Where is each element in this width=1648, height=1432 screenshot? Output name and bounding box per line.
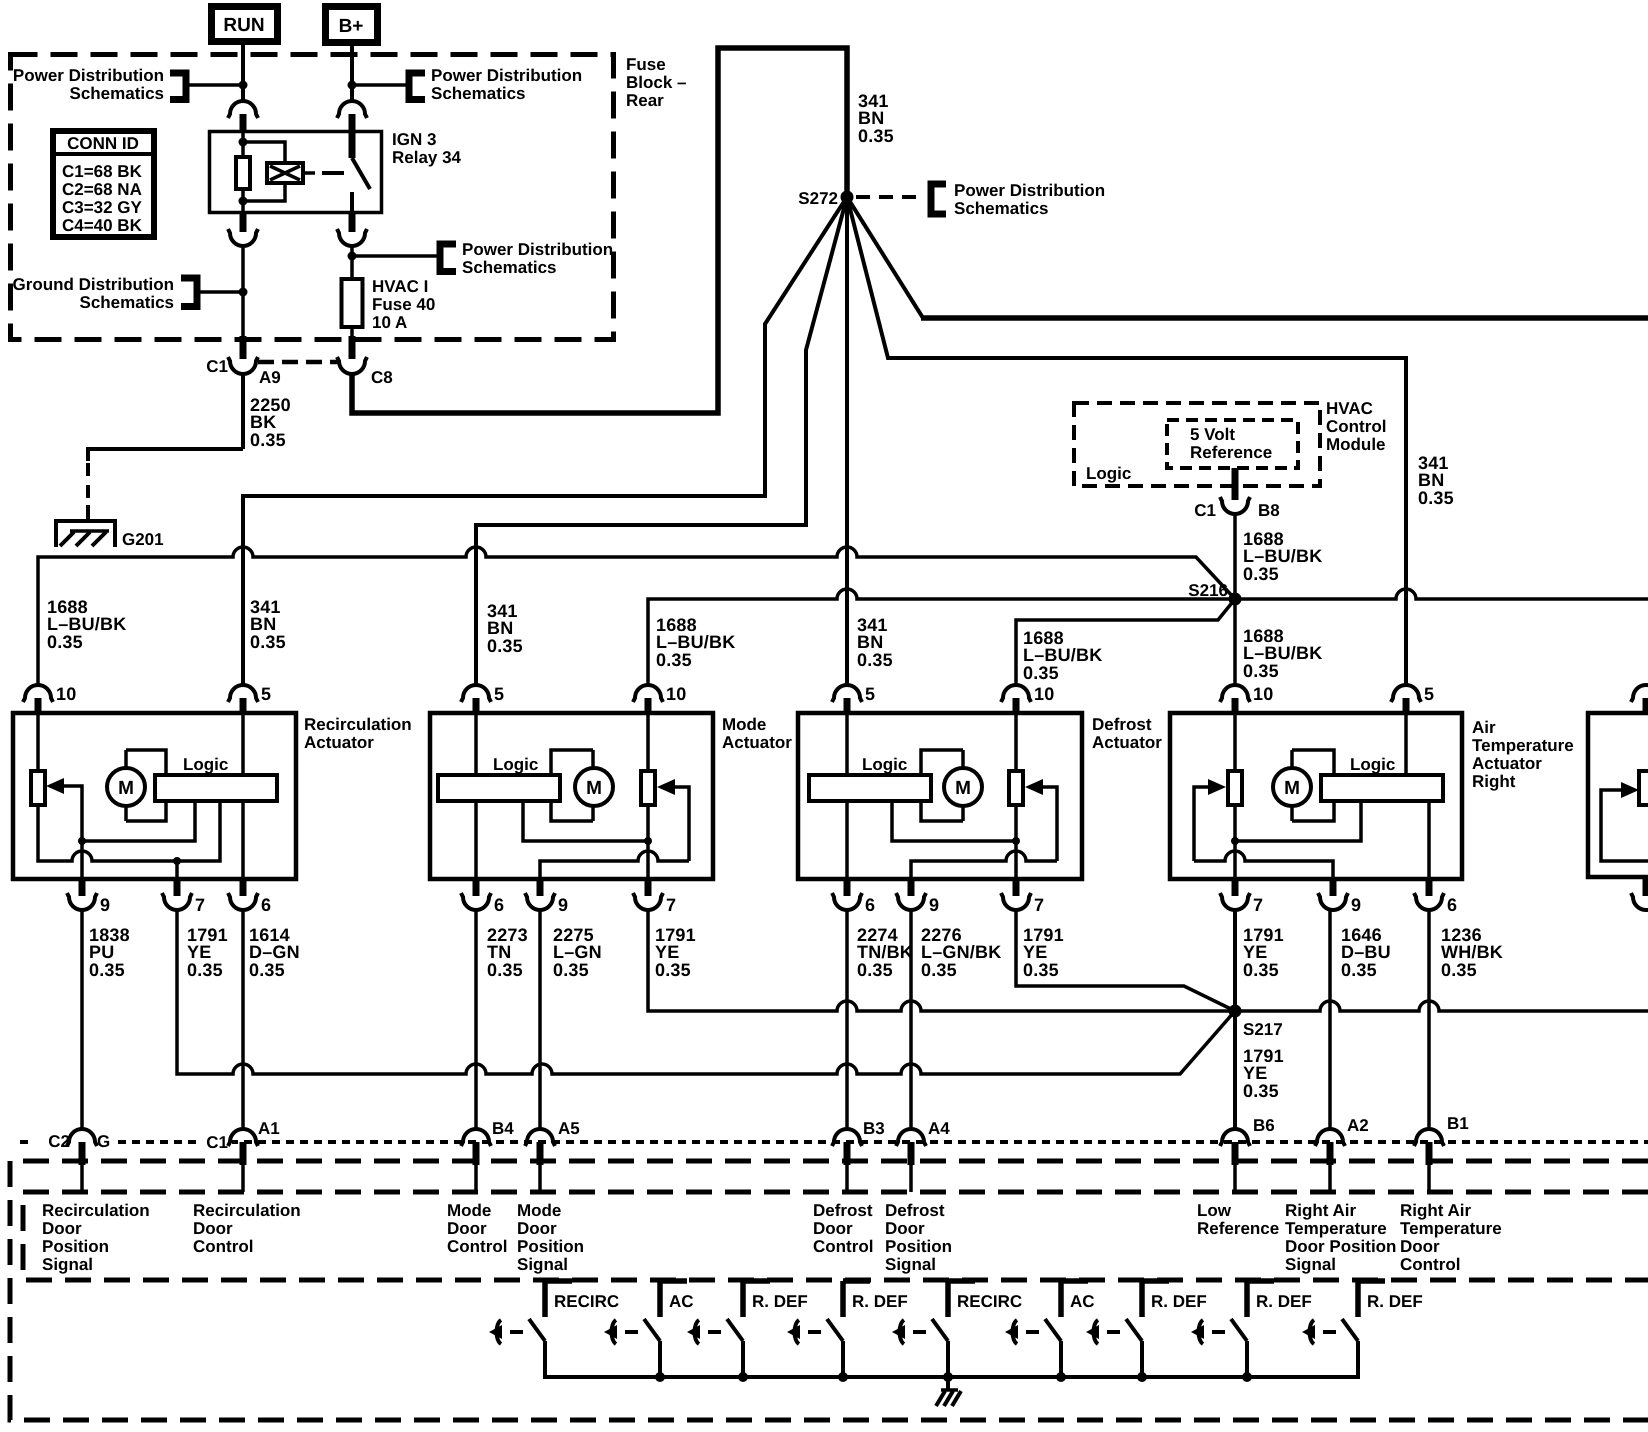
svg-text:Power Distribution: Power Distribution xyxy=(431,66,582,85)
svg-text:L–BU/BK: L–BU/BK xyxy=(47,614,126,634)
svg-text:0.35: 0.35 xyxy=(89,960,125,980)
svg-text:Logic: Logic xyxy=(862,755,907,774)
svg-text:0.35: 0.35 xyxy=(47,632,83,652)
svg-text:M: M xyxy=(586,778,602,799)
svg-text:RUN: RUN xyxy=(223,15,264,36)
svg-text:CONN ID: CONN ID xyxy=(67,134,139,153)
svg-text:C1: C1 xyxy=(1194,501,1216,520)
svg-text:BN: BN xyxy=(1418,470,1444,490)
svg-text:WH/BK: WH/BK xyxy=(1441,942,1503,962)
svg-text:C2: C2 xyxy=(48,1132,70,1151)
svg-text:0.35: 0.35 xyxy=(1441,960,1477,980)
svg-text:L–BU/BK: L–BU/BK xyxy=(1243,546,1322,566)
svg-text:6: 6 xyxy=(865,895,875,915)
svg-text:0.35: 0.35 xyxy=(655,960,691,980)
svg-text:Door: Door xyxy=(42,1219,82,1238)
svg-text:6: 6 xyxy=(261,895,271,915)
svg-text:Signal: Signal xyxy=(1285,1255,1336,1274)
svg-text:BN: BN xyxy=(250,614,276,634)
svg-text:S217: S217 xyxy=(1243,1020,1283,1039)
svg-text:B+: B+ xyxy=(339,16,364,37)
svg-text:D–BU: D–BU xyxy=(1341,942,1391,962)
svg-text:Recirculation: Recirculation xyxy=(42,1201,150,1220)
svg-text:AC: AC xyxy=(1070,1292,1095,1311)
svg-text:Actuator: Actuator xyxy=(1092,733,1162,752)
svg-text:5: 5 xyxy=(865,684,875,704)
svg-text:Ground Distribution: Ground Distribution xyxy=(13,275,174,294)
svg-text:Schematics: Schematics xyxy=(70,84,165,103)
svg-text:Door: Door xyxy=(517,1219,557,1238)
svg-text:0.35: 0.35 xyxy=(1243,564,1279,584)
svg-text:7: 7 xyxy=(1253,895,1263,915)
svg-text:YE: YE xyxy=(1023,942,1047,962)
svg-text:R. DEF: R. DEF xyxy=(1151,1292,1207,1311)
svg-text:Defrost: Defrost xyxy=(885,1201,945,1220)
svg-text:Schematics: Schematics xyxy=(80,293,175,312)
svg-text:10: 10 xyxy=(1034,684,1054,704)
svg-text:Control: Control xyxy=(1326,417,1386,436)
svg-text:R. DEF: R. DEF xyxy=(852,1292,908,1311)
svg-text:0.35: 0.35 xyxy=(487,960,523,980)
svg-text:C1=68 BK: C1=68 BK xyxy=(62,162,143,181)
svg-text:L–GN: L–GN xyxy=(553,942,602,962)
svg-text:Temperature: Temperature xyxy=(1400,1219,1502,1238)
svg-text:10 A: 10 A xyxy=(372,313,407,332)
svg-text:B6: B6 xyxy=(1253,1116,1275,1135)
svg-text:Logic: Logic xyxy=(1086,464,1131,483)
svg-text:M: M xyxy=(955,778,971,799)
svg-text:9: 9 xyxy=(558,895,568,915)
svg-text:0.35: 0.35 xyxy=(1023,663,1059,683)
svg-text:Position: Position xyxy=(517,1237,584,1256)
svg-text:6: 6 xyxy=(1447,895,1457,915)
svg-text:Recirculation: Recirculation xyxy=(304,715,412,734)
svg-text:Reference: Reference xyxy=(1197,1219,1279,1238)
svg-text:S272: S272 xyxy=(798,189,838,208)
svg-text:B4: B4 xyxy=(492,1119,514,1138)
svg-text:R. DEF: R. DEF xyxy=(1367,1292,1423,1311)
svg-text:Fuse 40: Fuse 40 xyxy=(372,295,435,314)
svg-text:PU: PU xyxy=(89,942,114,962)
svg-text:TN/BK: TN/BK xyxy=(857,942,913,962)
svg-text:Right Air: Right Air xyxy=(1285,1201,1357,1220)
svg-text:Mode: Mode xyxy=(722,715,766,734)
svg-text:TN: TN xyxy=(487,942,511,962)
svg-text:Actuator: Actuator xyxy=(722,733,792,752)
svg-text:G: G xyxy=(97,1132,110,1151)
svg-text:0.35: 0.35 xyxy=(249,960,285,980)
svg-text:Door Position: Door Position xyxy=(1285,1237,1396,1256)
svg-text:YE: YE xyxy=(1243,1063,1267,1083)
svg-text:Schematics: Schematics xyxy=(954,199,1049,218)
svg-text:RECIRC: RECIRC xyxy=(957,1292,1022,1311)
svg-text:YE: YE xyxy=(655,942,679,962)
svg-text:C4=40 BK: C4=40 BK xyxy=(62,216,143,235)
svg-text:Signal: Signal xyxy=(517,1255,568,1274)
svg-text:Power Distribution: Power Distribution xyxy=(954,181,1105,200)
svg-text:M: M xyxy=(118,778,134,799)
svg-text:Logic: Logic xyxy=(1350,755,1395,774)
svg-text:Door: Door xyxy=(193,1219,233,1238)
svg-text:Logic: Logic xyxy=(493,755,538,774)
svg-text:C3=32 GY: C3=32 GY xyxy=(62,198,143,217)
svg-text:0.35: 0.35 xyxy=(553,960,589,980)
svg-text:10: 10 xyxy=(1253,684,1273,704)
svg-text:10: 10 xyxy=(666,684,686,704)
svg-text:L–BU/BK: L–BU/BK xyxy=(1023,645,1102,665)
svg-text:YE: YE xyxy=(1243,942,1267,962)
svg-text:0.35: 0.35 xyxy=(858,126,894,146)
svg-text:Mode: Mode xyxy=(517,1201,561,1220)
svg-text:0.35: 0.35 xyxy=(1341,960,1377,980)
svg-text:AC: AC xyxy=(669,1292,694,1311)
svg-text:Relay 34: Relay 34 xyxy=(392,148,462,167)
svg-text:0.35: 0.35 xyxy=(1418,488,1454,508)
svg-text:G201: G201 xyxy=(122,530,164,549)
svg-text:0.35: 0.35 xyxy=(187,960,223,980)
svg-text:Door: Door xyxy=(447,1219,487,1238)
svg-text:R. DEF: R. DEF xyxy=(1256,1292,1312,1311)
svg-text:BN: BN xyxy=(858,108,884,128)
svg-text:Reference: Reference xyxy=(1190,443,1272,462)
svg-text:Control: Control xyxy=(813,1237,873,1256)
svg-text:BN: BN xyxy=(487,618,513,638)
svg-text:0.35: 0.35 xyxy=(1243,661,1279,681)
svg-text:A4: A4 xyxy=(928,1119,950,1138)
svg-text:Defrost: Defrost xyxy=(813,1201,873,1220)
svg-text:Control: Control xyxy=(447,1237,507,1256)
svg-text:Control: Control xyxy=(1400,1255,1460,1274)
svg-text:C1: C1 xyxy=(206,1133,228,1152)
svg-text:Right: Right xyxy=(1472,772,1516,791)
svg-text:IGN 3: IGN 3 xyxy=(392,130,436,149)
svg-text:9: 9 xyxy=(1351,895,1361,915)
svg-text:B3: B3 xyxy=(863,1119,885,1138)
svg-text:Mode: Mode xyxy=(447,1201,491,1220)
svg-text:L–GN/BK: L–GN/BK xyxy=(921,942,1001,962)
svg-text:A5: A5 xyxy=(558,1119,580,1138)
svg-text:L–BU/BK: L–BU/BK xyxy=(656,632,735,652)
svg-text:Door: Door xyxy=(1400,1237,1440,1256)
svg-text:Actuator: Actuator xyxy=(304,733,374,752)
svg-text:Door: Door xyxy=(885,1219,925,1238)
svg-text:0.35: 0.35 xyxy=(250,430,286,450)
svg-text:Schematics: Schematics xyxy=(462,258,557,277)
svg-text:Temperature: Temperature xyxy=(1285,1219,1387,1238)
svg-text:0.35: 0.35 xyxy=(857,650,893,670)
svg-text:Door: Door xyxy=(813,1219,853,1238)
svg-text:Recirculation: Recirculation xyxy=(193,1201,301,1220)
svg-text:B1: B1 xyxy=(1447,1114,1469,1133)
svg-text:6: 6 xyxy=(494,895,504,915)
svg-text:9: 9 xyxy=(929,895,939,915)
svg-text:HVAC: HVAC xyxy=(1326,399,1373,418)
svg-text:D–GN: D–GN xyxy=(249,942,300,962)
svg-text:RECIRC: RECIRC xyxy=(554,1292,619,1311)
svg-text:Power Distribution: Power Distribution xyxy=(13,66,164,85)
svg-text:L–BU/BK: L–BU/BK xyxy=(1243,643,1322,663)
svg-text:Signal: Signal xyxy=(885,1255,936,1274)
svg-text:Low: Low xyxy=(1197,1201,1232,1220)
svg-text:Rear: Rear xyxy=(626,91,664,110)
svg-text:A9: A9 xyxy=(259,368,281,387)
svg-text:0.35: 0.35 xyxy=(1023,960,1059,980)
svg-text:7: 7 xyxy=(195,895,205,915)
svg-text:5: 5 xyxy=(1424,684,1434,704)
svg-text:Module: Module xyxy=(1326,435,1386,454)
svg-text:Schematics: Schematics xyxy=(431,84,526,103)
svg-text:0.35: 0.35 xyxy=(250,632,286,652)
svg-text:0.35: 0.35 xyxy=(1243,960,1279,980)
svg-text:0.35: 0.35 xyxy=(857,960,893,980)
svg-text:HVAC I: HVAC I xyxy=(372,277,428,296)
svg-text:0.35: 0.35 xyxy=(1243,1081,1279,1101)
svg-text:0.35: 0.35 xyxy=(487,636,523,656)
svg-text:Defrost: Defrost xyxy=(1092,715,1152,734)
svg-text:Block –: Block – xyxy=(626,73,686,92)
svg-text:Control: Control xyxy=(193,1237,253,1256)
svg-text:0.35: 0.35 xyxy=(656,650,692,670)
svg-text:Power Distribution: Power Distribution xyxy=(462,240,613,259)
svg-text:Signal: Signal xyxy=(42,1255,93,1274)
svg-text:5: 5 xyxy=(494,684,504,704)
svg-text:Actuator: Actuator xyxy=(1472,754,1542,773)
svg-text:5 Volt: 5 Volt xyxy=(1190,425,1235,444)
svg-text:R. DEF: R. DEF xyxy=(752,1292,808,1311)
svg-text:C1: C1 xyxy=(206,357,228,376)
svg-text:B8: B8 xyxy=(1258,501,1280,520)
svg-text:C8: C8 xyxy=(371,368,393,387)
svg-text:Fuse: Fuse xyxy=(626,55,666,74)
svg-text:Air: Air xyxy=(1472,718,1496,737)
svg-text:A1: A1 xyxy=(258,1119,280,1138)
svg-text:Position: Position xyxy=(885,1237,952,1256)
svg-text:7: 7 xyxy=(1034,895,1044,915)
svg-text:C2=68 NA: C2=68 NA xyxy=(62,180,142,199)
svg-text:7: 7 xyxy=(666,895,676,915)
svg-text:0.35: 0.35 xyxy=(921,960,957,980)
svg-text:YE: YE xyxy=(187,942,211,962)
svg-text:M: M xyxy=(1284,778,1300,799)
svg-text:5: 5 xyxy=(261,684,271,704)
svg-text:BN: BN xyxy=(857,632,883,652)
svg-text:Logic: Logic xyxy=(183,755,228,774)
svg-text:BK: BK xyxy=(250,412,276,432)
svg-text:Position: Position xyxy=(42,1237,109,1256)
svg-text:A2: A2 xyxy=(1347,1116,1369,1135)
svg-text:10: 10 xyxy=(56,684,76,704)
svg-text:Right Air: Right Air xyxy=(1400,1201,1472,1220)
svg-text:9: 9 xyxy=(100,895,110,915)
svg-text:Temperature: Temperature xyxy=(1472,736,1574,755)
